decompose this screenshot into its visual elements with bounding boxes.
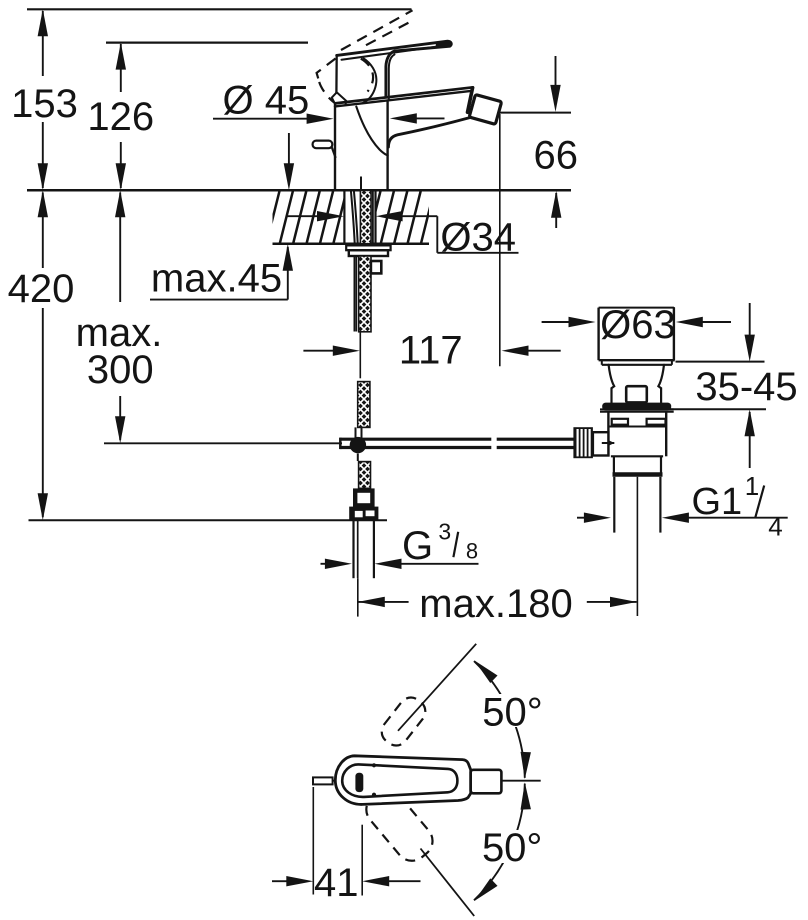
rod slider block — [371, 261, 381, 273]
dimension max45 leader — [150, 133, 289, 300]
dimension 420 — [42, 193, 44, 518]
dimension 153 — [42, 11, 44, 188]
bottom view dots — [372, 763, 376, 767]
svg-text:50°: 50° — [482, 690, 543, 734]
drain valve body — [608, 412, 666, 457]
reference line 420 bottom — [29, 519, 388, 521]
drain valve neck — [609, 365, 664, 403]
drain collar flange — [600, 409, 674, 411]
dimension 126 — [120, 44, 122, 188]
bottom view handle blade — [342, 764, 457, 797]
dimension D45 arrows — [213, 117, 445, 119]
svg-text:35-45: 35-45 — [695, 365, 797, 409]
reference line 35-45 bottom — [669, 408, 766, 410]
dimension D63 — [542, 307, 731, 361]
ball joint — [350, 437, 366, 453]
reference line 35-45 top — [676, 361, 765, 363]
deck hatching left — [266, 189, 347, 245]
dimension 41 — [272, 787, 421, 896]
svg-text:50°: 50° — [482, 826, 543, 870]
bottom view aerator — [471, 770, 502, 794]
reference line deck bottom — [273, 243, 430, 246]
reference line aerator outlet — [499, 112, 571, 114]
dimension G1 1/4 — [577, 517, 788, 519]
reference line top 153 — [27, 8, 412, 10]
svg-text:4: 4 — [768, 512, 782, 542]
threaded rod in deck — [360, 190, 371, 243]
bottom view centerline — [313, 780, 541, 782]
aerator square — [469, 94, 501, 124]
faucet spout — [335, 87, 473, 147]
angle arc lower 50 — [474, 784, 525, 901]
bottom view handle slot — [355, 773, 363, 792]
drain plug cylinder D63 — [599, 308, 674, 365]
dimension 117 — [303, 114, 560, 378]
threaded rod segment C — [358, 382, 370, 428]
reference line max300 — [104, 442, 342, 444]
angle ray lower — [421, 849, 475, 917]
svg-text:420: 420 — [8, 267, 75, 311]
reference line 126 — [106, 41, 308, 43]
bottom view handle open down dashed — [360, 783, 439, 867]
faucet handle open dashed — [317, 10, 415, 102]
drain tailpipe G1 1/4 — [614, 477, 660, 533]
drain lever stem — [593, 432, 609, 455]
svg-text:1: 1 — [745, 471, 759, 501]
bottom view handle open up dashed — [377, 693, 430, 751]
angle ray upper — [398, 644, 476, 731]
svg-text:Ø63: Ø63 — [600, 303, 676, 347]
svg-text:G1: G1 — [692, 481, 743, 523]
dimension 35-45 — [749, 303, 751, 468]
drain seal collar — [602, 403, 671, 411]
supply pipe G3/8 — [354, 521, 374, 578]
drain knurled nut — [573, 427, 593, 458]
drain lever pin — [602, 442, 615, 444]
drain lower section — [613, 456, 663, 474]
dimension max300 — [119, 193, 121, 441]
faucet body — [335, 101, 388, 189]
mounting washer and nut — [346, 245, 391, 256]
svg-text:Ø 45: Ø 45 — [223, 79, 310, 123]
svg-text:G: G — [402, 524, 433, 568]
svg-text:300: 300 — [87, 348, 154, 392]
threaded rod segment B — [359, 256, 371, 332]
svg-text:max.45: max.45 — [151, 257, 282, 301]
dimension D34 — [287, 216, 519, 253]
faucet handle cap — [332, 55, 377, 104]
threaded rod segment D — [359, 462, 371, 489]
hose below deck — [354, 256, 356, 332]
svg-text:41: 41 — [314, 861, 359, 905]
svg-text:126: 126 — [87, 95, 154, 139]
bottom view rod stub — [313, 777, 333, 784]
svg-text:153: 153 — [11, 82, 78, 126]
shank in deck hole — [344, 177, 375, 244]
dimension 66 — [555, 56, 558, 228]
deck hatching right — [367, 189, 435, 245]
faucet handle blade closed — [337, 41, 452, 99]
rod end fitting — [355, 491, 372, 506]
horizontal linkage rod — [340, 438, 573, 450]
reference line deck top — [27, 189, 571, 192]
svg-text:3: 3 — [438, 518, 451, 544]
drain valve square knob — [626, 386, 647, 402]
angle arc upper 50 — [474, 661, 525, 778]
rod to ball connectors — [356, 427, 362, 461]
bottom view body outline — [335, 756, 470, 805]
svg-text:max.180: max.180 — [419, 582, 572, 626]
rod end nut — [349, 507, 378, 521]
svg-text:66: 66 — [534, 134, 579, 178]
svg-text:Ø34: Ø34 — [440, 216, 516, 260]
svg-text:8: 8 — [466, 538, 478, 563]
dimension max180 — [358, 477, 638, 617]
lever tab — [313, 141, 336, 158]
svg-text:117: 117 — [399, 329, 463, 373]
dimension G3/8 — [321, 563, 479, 565]
